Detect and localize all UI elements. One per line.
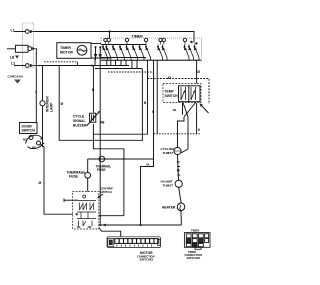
svg-text:CYCLE: CYCLE (73, 115, 85, 119)
svg-text:4A: 4A (146, 163, 150, 167)
svg-text:SIGNAL: SIGNAL (73, 119, 85, 123)
timer contacts (102, 45, 199, 61)
svg-text:SWITCH: SWITCH (22, 129, 36, 133)
wire to hi-limit (178, 155, 179, 181)
door switch contacts (29, 136, 33, 140)
thermal fuse (87, 159, 89, 172)
svg-text:B: B (92, 88, 95, 92)
drops from timer to lower buses (94, 58, 96, 66)
svg-text:NO: NO (32, 146, 37, 150)
wire L2 lead (14, 65, 25, 67)
cycling thermostat (174, 147, 181, 154)
svg-text:MOTOR: MOTOR (60, 51, 73, 55)
svg-text:LB: LB (10, 55, 15, 59)
wire door switch out (41, 145, 73, 215)
svg-text:8: 8 (198, 128, 200, 132)
wire dashed drop (76, 62, 78, 66)
hi-limit thermostat (175, 180, 182, 187)
timer terminal stems (106, 42, 186, 45)
svg-text:1M: 1M (77, 225, 82, 229)
timer motor (77, 45, 87, 55)
right rails (187, 117, 189, 149)
heater (177, 203, 185, 211)
temp switch out wires (182, 103, 184, 115)
svg-text:H: H (152, 110, 155, 114)
interior lamp (40, 101, 45, 106)
dashed bus middle right (154, 133, 201, 135)
temp switch contacts (181, 87, 196, 100)
wire thermal fuse to motor (87, 178, 89, 191)
svg-text:BUZZER: BUZZER (73, 124, 87, 128)
wire lamp down (42, 106, 44, 147)
svg-text:TIMER: TIMER (191, 229, 199, 233)
motor dashed box (73, 192, 99, 229)
junction dot left (76, 213, 78, 215)
aux connector block (184, 233, 210, 250)
wire L2 bus (34, 65, 129, 67)
terminal L1 (25, 30, 29, 34)
terminal N box (16, 45, 29, 52)
svg-text:2M: 2M (88, 225, 93, 229)
svg-text:4B: 4B (100, 121, 105, 125)
wire motor box top to timer (91, 43, 101, 45)
svg-text:LAMP: LAMP (50, 102, 54, 112)
thermostat wire (88, 158, 154, 160)
motor connector strip (107, 237, 161, 248)
svg-text:M: M (39, 181, 42, 185)
temp switch dashed box (163, 84, 201, 103)
svg-text:THMST: THMST (163, 151, 174, 155)
svg-text:B: B (144, 101, 147, 105)
dashed crossbar (108, 71, 154, 73)
thermostat jog to lower rail (141, 159, 154, 225)
wire dashed under motor box (44, 61, 77, 63)
terminal plug dashed box (23, 23, 34, 68)
cycle signal buzzer (90, 113, 96, 122)
terminal L2 (25, 64, 29, 68)
svg-text:L2: L2 (11, 61, 15, 65)
solid bus middle (93, 133, 147, 135)
svg-text:1: 1 (35, 90, 37, 94)
motor internals (77, 195, 97, 229)
wire L1 bus (34, 32, 194, 43)
junction on L1 bus (108, 30, 110, 32)
timer junction dots (190, 41, 192, 43)
wire selector loop branch (59, 66, 142, 141)
wire heater down to bus (180, 211, 182, 225)
wire neutral to door switch (35, 49, 38, 123)
svg-text:SWITCHES: SWITCHES (187, 256, 201, 260)
timer internal bus (101, 44, 146, 46)
bus 2 below timer (95, 68, 142, 70)
svg-text:SWITCH: SWITCH (165, 94, 179, 98)
dashed feeder right (148, 79, 210, 105)
wire to heater (179, 187, 181, 202)
buzzer wire to riser (93, 124, 124, 216)
svg-text:CARCASA: CARCASA (8, 74, 24, 78)
wire interior lamp branch (42, 65, 44, 100)
thermostat (99, 156, 105, 162)
svg-text:4B: 4B (173, 108, 178, 112)
wire L1 lead (14, 31, 25, 33)
centrifugal callout arrow (99, 194, 104, 198)
heater chain (178, 117, 185, 147)
timer motor contact (91, 57, 110, 59)
timer dashed box (101, 38, 202, 60)
svg-text:M: M (61, 102, 64, 106)
svg-text:TIMER: TIMER (132, 35, 144, 39)
svg-text:FUSE: FUSE (69, 175, 79, 179)
wire motor bottom to connector (99, 228, 121, 237)
callout arrow (201, 105, 209, 114)
wire bottom bus (99, 224, 182, 226)
svg-text:TIMER: TIMER (60, 46, 71, 50)
svg-text:THMST: THMST (163, 183, 174, 187)
svg-text:15: 15 (197, 70, 201, 74)
cycle signal buzzer rail (92, 66, 94, 113)
chassis ground (14, 80, 21, 84)
junction on L2 bus (91, 65, 93, 67)
svg-text:45: 45 (168, 76, 172, 80)
TIMER MOTOR box (57, 43, 91, 59)
svg-text:MOTOR: MOTOR (140, 251, 153, 255)
terminal N (28, 47, 32, 51)
motor aux stub wire (64, 199, 78, 201)
svg-text:FUSE: FUSE (97, 168, 106, 172)
svg-text:HEATER: HEATER (162, 206, 176, 210)
svg-text:NC: NC (23, 138, 27, 142)
timer terminals (104, 38, 107, 41)
wire motor right upper (99, 215, 124, 217)
timer bottom line (101, 59, 202, 61)
door switch box (20, 123, 38, 134)
svg-text:SWITCHES: SWITCHES (140, 258, 154, 262)
svg-text:SWITCH: SWITCH (100, 190, 112, 194)
